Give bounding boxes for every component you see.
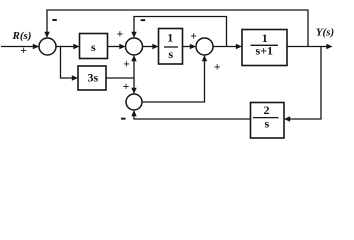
block 1/s bbox=[159, 29, 183, 65]
fraction bar 2/s bbox=[253, 117, 279, 119]
wire summer4 output up to summer3 bbox=[142, 61, 205, 102]
arrow into block 2/s bbox=[284, 116, 290, 121]
arrow into summer2 bottom bbox=[131, 55, 136, 61]
block 1/(s+1) bbox=[242, 30, 287, 66]
arrow into block s bbox=[73, 44, 79, 49]
wire 3s output junction bbox=[106, 61, 134, 78]
svg-text:+: + bbox=[117, 29, 124, 41]
block s bbox=[80, 34, 108, 59]
svg-text:+: + bbox=[190, 30, 197, 42]
fraction bar 1/(s+1) bbox=[251, 44, 279, 46]
svg-text:+: + bbox=[123, 81, 130, 93]
wire 1/s to summer3 bbox=[183, 46, 191, 48]
arrow into block 3s bbox=[72, 75, 78, 80]
arrow output Y(s) bbox=[326, 44, 332, 49]
svg-text:1: 1 bbox=[262, 31, 268, 45]
svg-text:s: s bbox=[91, 40, 96, 54]
summer1 bbox=[39, 38, 56, 55]
svg-text:+: + bbox=[214, 61, 221, 73]
sign - summer4 bottom bbox=[121, 118, 126, 120]
svg-text:3s: 3s bbox=[87, 71, 98, 85]
sign - outer feedback bbox=[52, 19, 57, 21]
svg-text:+: + bbox=[123, 58, 130, 70]
wire summer1 output bbox=[56, 46, 74, 48]
svg-text:s: s bbox=[264, 117, 269, 131]
sign - inner feedback bbox=[141, 19, 146, 21]
svg-text:2: 2 bbox=[264, 103, 270, 117]
wire s to summer2 bbox=[108, 46, 120, 48]
arrow into summer1 bbox=[33, 44, 39, 49]
fraction bar 1/s bbox=[164, 46, 178, 48]
arrow feedback into summer1 top bbox=[44, 32, 49, 38]
svg-text:+: + bbox=[20, 45, 27, 57]
wire output to Y(s) bbox=[287, 46, 327, 48]
wire junction down to summer4 bbox=[133, 78, 135, 88]
svg-text:Y(s): Y(s) bbox=[316, 26, 334, 38]
svg-text:s: s bbox=[168, 47, 173, 61]
summer2 bbox=[126, 38, 143, 55]
wire tap down to 2/s bbox=[289, 47, 321, 120]
summer4 bbox=[126, 94, 142, 110]
arrow into summer3 bottom bbox=[202, 55, 207, 61]
arrow into summer2 left bbox=[119, 44, 125, 49]
wire 2/s output to summer4 bbox=[134, 115, 251, 119]
arrow into summer4 bottom bbox=[131, 110, 136, 116]
wire inner feedback loop bbox=[134, 17, 227, 47]
block 3s bbox=[78, 66, 106, 90]
block 2/s bbox=[251, 103, 285, 139]
wire summer3 to 1/(s+1) bbox=[213, 46, 236, 48]
arrow into summer3 left bbox=[190, 44, 196, 49]
wire summer2 to 1/s bbox=[143, 46, 153, 48]
svg-text:1: 1 bbox=[167, 31, 173, 45]
arrow into summer4 top bbox=[131, 88, 136, 94]
wire outer feedback loop bbox=[47, 10, 308, 47]
arrow into block 1/s bbox=[152, 44, 158, 49]
wire input R(s) bbox=[1, 46, 39, 48]
wire branch down to 3s bbox=[61, 47, 73, 79]
arrow feedback into summer2 top bbox=[131, 32, 136, 38]
svg-text:R(s): R(s) bbox=[12, 30, 32, 42]
summer3 bbox=[196, 38, 213, 55]
arrow into block 1/(s+1) bbox=[236, 44, 242, 49]
